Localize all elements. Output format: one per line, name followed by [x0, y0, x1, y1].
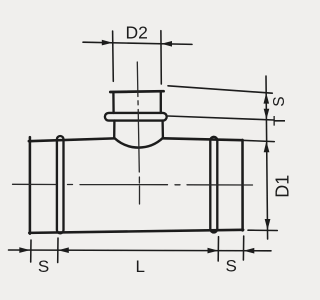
ext line left bead	[57, 238, 59, 263]
ext line pipe top right	[242, 140, 274, 141]
bottom dimension line	[9, 249, 272, 252]
D2 dimension	[83, 31, 192, 84]
D2 arrow right	[161, 41, 172, 47]
arrow up at pipe top ext	[264, 141, 270, 152]
arrow right at right bead (L end)	[208, 248, 219, 254]
horizontal centerline of main pipe	[13, 183, 253, 186]
main pipe body outline	[29, 137, 243, 233]
ext line branch top	[168, 86, 272, 93]
D2 extension line left	[112, 31, 115, 81]
right end face	[241, 140, 244, 231]
branch wall lower left	[113, 121, 116, 138]
branch wall upper left	[112, 92, 115, 113]
svg-text:T: T	[270, 116, 289, 126]
svg-text:S: S	[38, 257, 49, 276]
svg-text:D2: D2	[126, 22, 148, 42]
left groove bead	[57, 136, 64, 233]
vertical centerline of branch	[137, 62, 139, 204]
D2 arrow left	[102, 40, 113, 46]
svg-text:L: L	[135, 257, 144, 276]
arrow down at pipe bottom ext	[265, 219, 271, 230]
saddle arc at branch/pipe junction	[114, 138, 163, 148]
bottom edge	[29, 230, 243, 233]
arrow down at bead ext	[264, 109, 270, 120]
arrow up at branch top ext	[264, 93, 270, 104]
arrow left at right face	[244, 248, 255, 254]
branch wall lower right	[161, 121, 164, 138]
svg-text:D1: D1	[273, 175, 293, 198]
ext line right bead	[217, 237, 219, 261]
arrow left at left bead (L start)	[58, 247, 69, 253]
arrow right at left face	[19, 247, 30, 253]
svg-text:S: S	[271, 96, 288, 106]
D2 extension line right	[160, 31, 162, 84]
right vertical dimension line	[266, 76, 268, 239]
ext line pipe left face	[30, 240, 32, 262]
D2 dimension line	[83, 42, 192, 44]
top edge left segment	[29, 138, 114, 141]
branch wall upper right	[160, 92, 162, 113]
top edge right segment	[163, 138, 243, 140]
ext line branch bead bottom	[168, 116, 274, 120]
left end face	[29, 137, 32, 233]
ext line pipe bottom right	[248, 229, 277, 231]
ext line pipe right face	[242, 236, 244, 260]
S/T extension lines at branch right	[168, 76, 277, 239]
branch outlet rim	[110, 90, 163, 94]
branch groove bead	[105, 113, 167, 121]
bottom dimension extension lines	[9, 236, 272, 263]
svg-text:S: S	[226, 256, 237, 275]
right groove bead	[210, 137, 217, 233]
